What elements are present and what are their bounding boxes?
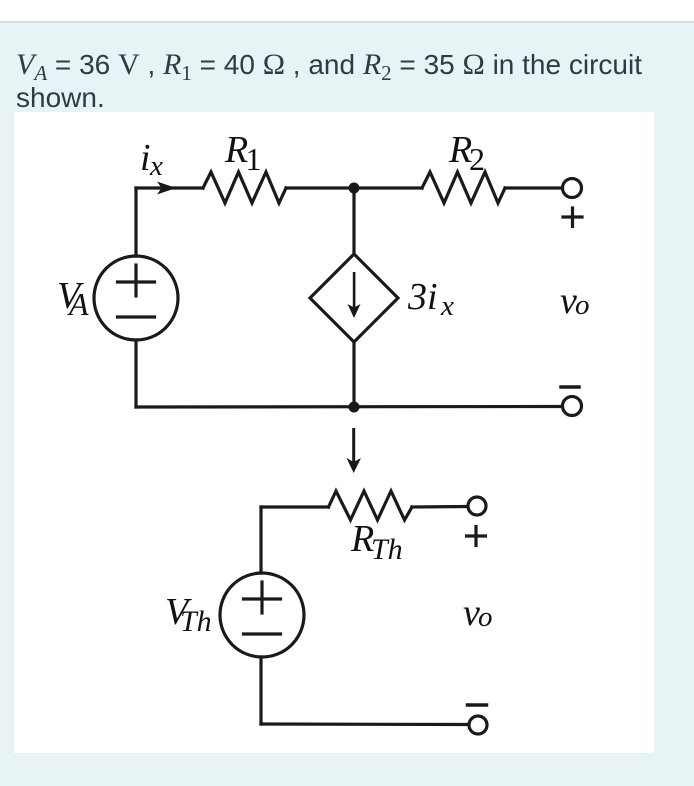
svg-text:o: o [575, 289, 590, 321]
svg-text:i: i [140, 137, 151, 179]
svg-text:i: i [427, 276, 438, 318]
svg-text:A: A [67, 286, 89, 322]
svg-text:2: 2 [469, 141, 485, 177]
svg-text:1: 1 [246, 141, 262, 177]
svg-text:x: x [149, 150, 163, 182]
svg-text:3: 3 [407, 276, 427, 318]
svg-text:Th: Th [180, 605, 212, 638]
svg-text:x: x [440, 290, 454, 322]
svg-text:Th: Th [371, 533, 403, 566]
svg-text:o: o [478, 601, 493, 633]
